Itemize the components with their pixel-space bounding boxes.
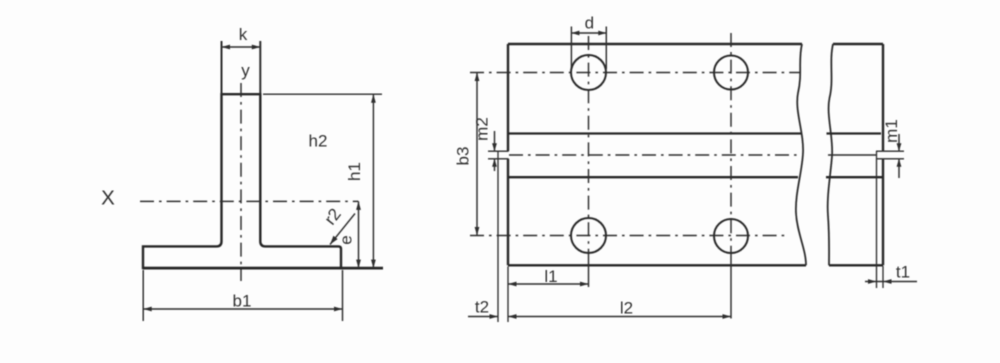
main rectangle left edge (507, 44, 509, 265)
hole bottom-left (571, 218, 606, 253)
left edge extension down (507, 267, 509, 323)
b3 arrows (475, 73, 480, 236)
hole bottom-right (714, 219, 748, 253)
stem centerline (240, 83, 242, 281)
middle centerline right piece (828, 154, 877, 156)
svg-text:X: X (101, 187, 115, 210)
svg-text:b3: b3 (454, 147, 473, 166)
h1 arrows (371, 94, 376, 268)
l2 arrows (508, 314, 731, 319)
svg-text:b1: b1 (233, 292, 252, 311)
t2 extension from notch (497, 159, 499, 322)
dimension t2 line (468, 316, 498, 318)
m2 arrows (492, 143, 497, 167)
bottom row centerline (470, 235, 789, 237)
svg-text:t2: t2 (475, 298, 489, 317)
e arrows (356, 201, 361, 268)
l1 extension below hole A (588, 255, 590, 287)
dimension l2 line (508, 316, 731, 318)
svg-text:y: y (241, 61, 250, 80)
t1 arrows (868, 279, 892, 284)
b1 arrows (143, 307, 342, 312)
dimension e line (358, 201, 360, 268)
dimension t1 line (865, 281, 917, 283)
T-profile outline (143, 94, 341, 268)
h1 top extension line (263, 93, 382, 95)
svg-text:m2: m2 (473, 117, 492, 141)
dimension k line (222, 46, 261, 48)
k extension lines (stem edges extended) (222, 41, 261, 94)
hole column centerline B (730, 33, 732, 256)
d arrows (571, 31, 606, 36)
t2 arrow (490, 314, 499, 319)
l1 arrows (508, 282, 589, 287)
t1 extension from notch (876, 159, 878, 288)
svg-text:m1: m1 (882, 119, 901, 143)
svg-text:r2: r2 (321, 205, 345, 229)
l2 extension below hole B (730, 256, 732, 319)
dimension h1 line (372, 94, 374, 268)
dimension d line (571, 32, 606, 34)
b1 extension lines (143, 270, 342, 321)
m1 notch face (876, 151, 878, 159)
dimension b1 line (143, 308, 342, 310)
m1 notch ticks (876, 151, 904, 159)
r2 leader arrow (330, 236, 338, 245)
right piece bottom edge (829, 264, 883, 266)
svg-text:l1: l1 (544, 267, 557, 286)
right piece top edge (833, 43, 883, 45)
hole column centerline A (588, 36, 590, 255)
hole top-left (571, 55, 606, 90)
main rectangle bottom edge (508, 264, 806, 266)
svg-text:h1: h1 (345, 162, 364, 181)
right edge extension down (882, 266, 884, 288)
svg-text:l2: l2 (620, 298, 633, 317)
groove bottom line (509, 176, 883, 178)
break wavy line 1 (796, 44, 806, 265)
svg-text:k: k (239, 25, 248, 44)
baseline extension (143, 267, 383, 270)
main rectangle top edge (508, 43, 802, 45)
break wavy line 2 (828, 44, 833, 265)
top row centerline (470, 72, 800, 74)
m2 notch face (497, 151, 499, 159)
r2 leader line (330, 214, 355, 245)
svg-text:h2: h2 (309, 132, 328, 151)
dimension l1 line (508, 283, 589, 285)
middle centerline (509, 154, 798, 156)
k arrows (222, 45, 261, 50)
svg-text:d: d (585, 14, 594, 33)
X axis centerline (140, 200, 359, 202)
dimension m1 line (898, 134, 900, 178)
right piece right edge (882, 44, 884, 265)
m1 arrows (897, 143, 902, 167)
groove top line (509, 132, 881, 134)
m2 notch ticks (488, 151, 509, 159)
d extension lines (571, 27, 606, 70)
svg-text:t1: t1 (896, 263, 910, 282)
svg-text:e: e (337, 235, 356, 244)
dimension b3 line (476, 73, 478, 236)
dimension m2 line (494, 131, 496, 171)
hole top-right (714, 56, 748, 90)
